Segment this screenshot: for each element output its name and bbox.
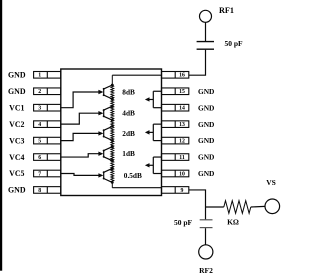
attenuator stage 2 (4dB) wiper triangle: [103, 105, 114, 122]
label GND (pin 12): [198, 136, 214, 145]
capacitor C1 50 pF (bottom plate): [197, 48, 214, 50]
label VC5 (pin 7): [9, 169, 24, 178]
svg-text:50 pF: 50 pF: [225, 39, 244, 48]
pin 5 box with pin number 5: [34, 137, 61, 144]
svg-text:VC4: VC4: [9, 153, 24, 162]
svg-text:1dB: 1dB: [122, 149, 135, 158]
svg-text:3: 3: [38, 106, 41, 112]
svg-text:VC1: VC1: [9, 103, 24, 112]
attenuator stage 1 (8dB) wiper triangle: [103, 84, 114, 101]
label GND (pin 2): [8, 87, 26, 96]
svg-text:15: 15: [179, 89, 185, 95]
svg-text:2: 2: [38, 89, 41, 95]
attenuator stage 4 (1dB) wiper triangle: [103, 145, 114, 162]
capacitor C2 50 pF (bottom plate): [200, 227, 213, 229]
pin 10 box with pin number 10: [162, 170, 189, 177]
svg-text:9: 9: [181, 188, 184, 194]
svg-text:KΩ: KΩ: [227, 217, 239, 226]
svg-text:8dB: 8dB: [122, 88, 135, 97]
label RF1: [219, 6, 234, 15]
wire ladder bottom to pin 9 (RF output node): [112, 187, 161, 189]
wire C2 to RF2: [205, 228, 207, 245]
label GND (pin 15): [198, 87, 214, 96]
svg-text:14: 14: [179, 106, 185, 112]
svg-text:GND: GND: [198, 87, 214, 96]
label VC1 (pin 3): [9, 103, 24, 112]
svg-text:GND: GND: [198, 103, 214, 112]
svg-text:16: 16: [179, 73, 185, 79]
wire ladder top to pin 16 (RF input node): [112, 74, 161, 76]
svg-text:VC5: VC5: [9, 169, 24, 178]
svg-text:VC2: VC2: [9, 120, 24, 129]
node A junction (pin9/R1/C2): [206, 206, 224, 208]
pin 14 box with pin number 14: [162, 104, 189, 111]
IC U1 step-attenuator body (16-pin DIP outline): [61, 69, 162, 196]
label GND (pin 10): [198, 169, 214, 178]
wire GND bracket pins 11/10 with arrow into ladder: [145, 157, 162, 173]
wire GND bracket pins 13/12 with arrow into ladder: [145, 124, 162, 140]
capacitor C2 50 pF (top plate): [200, 219, 213, 221]
label GND (pin 1): [8, 71, 26, 80]
pin 15 box with pin number 15: [162, 88, 189, 95]
pin 7 box with pin number 7: [34, 170, 61, 177]
value label 4dB (stage 2): [122, 109, 135, 118]
value label 50 pF (C1): [225, 39, 244, 48]
wire VC4 control (pin 6 to stage 4 wiper): [61, 152, 104, 158]
pin 2 box with pin number 2: [34, 88, 61, 95]
wire GND bracket pins 15/14 with arrow into ladder: [145, 91, 162, 107]
svg-text:2dB: 2dB: [122, 129, 135, 138]
port RF1 terminal circle: [200, 10, 212, 22]
svg-text:6: 6: [38, 155, 41, 161]
label GND (pin 11): [198, 153, 214, 162]
wire C1 to pin 16 corner: [189, 50, 206, 75]
attenuator stage 5 (0.5dB) wiper triangle: [103, 167, 114, 184]
svg-text:7: 7: [38, 171, 41, 177]
value label 0.5dB (stage 5): [124, 171, 142, 180]
pin 8 box with pin number 8: [34, 187, 61, 194]
label GND (pin 13): [198, 120, 214, 129]
pin 16 box with pin number 16: [162, 72, 189, 79]
port RF2 terminal circle: [199, 245, 213, 259]
wire VC1 control (pin 3 to stage 1 wiper): [61, 90, 104, 108]
value label 2dB (stage 3): [122, 129, 135, 138]
pin 4 box with pin number 4: [34, 121, 61, 128]
svg-text:GND: GND: [8, 186, 26, 195]
svg-text:8: 8: [38, 188, 41, 194]
capacitor C1 50 pF (top plate): [197, 41, 214, 43]
wire VC5 control (pin 7 to stage 5 wiper): [61, 173, 104, 177]
resistor ladder (series attenuator resistors, vertical zigzag): [111, 75, 114, 188]
svg-text:4dB: 4dB: [122, 109, 135, 118]
wire node A to C2: [205, 207, 207, 219]
page border bar (left edge artifact): [0, 0, 2, 271]
pin 1 box with pin number 1: [34, 72, 61, 79]
value label 8dB (stage 1): [122, 88, 135, 97]
pin 12 box with pin number 12: [162, 137, 189, 144]
svg-text:GND: GND: [198, 153, 214, 162]
svg-text:GND: GND: [8, 87, 26, 96]
svg-text:1: 1: [38, 73, 41, 79]
svg-text:GND: GND: [8, 71, 26, 80]
label VS: [266, 178, 276, 187]
label GND (pin 14): [198, 103, 214, 112]
svg-text:0.5dB: 0.5dB: [124, 171, 142, 180]
svg-text:GND: GND: [198, 136, 214, 145]
label VC3 (pin 5): [9, 136, 24, 145]
label GND (pin 8): [8, 186, 26, 195]
svg-text:RF2: RF2: [199, 266, 213, 274]
pin 11 box with pin number 11: [162, 154, 189, 161]
pin 3 box with pin number 3: [34, 104, 61, 111]
wire VC3 control (pin 5 to stage 3 wiper): [61, 131, 104, 140]
attenuator stage 3 (2dB) wiper triangle: [103, 125, 114, 142]
pin 9 box with pin number 9: [162, 187, 189, 194]
label RF2: [199, 266, 213, 274]
value label 50 pF (C2): [174, 218, 193, 227]
svg-text:12: 12: [179, 139, 185, 145]
label VC4 (pin 6): [9, 153, 24, 162]
value label 1dB (stage 4): [122, 149, 135, 158]
svg-text:13: 13: [179, 122, 185, 128]
svg-text:10: 10: [179, 171, 185, 177]
wire pin 9 to node A: [189, 190, 206, 207]
value label KΩ (R1): [227, 217, 239, 226]
resistor R1 KΩ (zigzag): [224, 201, 251, 214]
svg-text:RF1: RF1: [219, 6, 234, 15]
svg-text:50 pF: 50 pF: [174, 218, 193, 227]
pin 13 box with pin number 13: [162, 121, 189, 128]
wire VC2 control (pin 4 to stage 2 wiper): [61, 111, 104, 124]
wire RF1 to C1: [205, 22, 207, 41]
svg-text:VS: VS: [266, 178, 276, 187]
svg-text:5: 5: [38, 139, 41, 145]
svg-text:11: 11: [179, 155, 185, 161]
svg-text:VC3: VC3: [9, 136, 24, 145]
svg-text:GND: GND: [198, 120, 214, 129]
label VC2 (pin 4): [9, 120, 24, 129]
pin 6 box with pin number 6: [34, 154, 61, 161]
svg-text:GND: GND: [198, 169, 214, 178]
svg-text:4: 4: [38, 122, 41, 128]
port VS terminal circle: [265, 199, 280, 214]
wire R1 to VS port: [251, 205, 265, 208]
